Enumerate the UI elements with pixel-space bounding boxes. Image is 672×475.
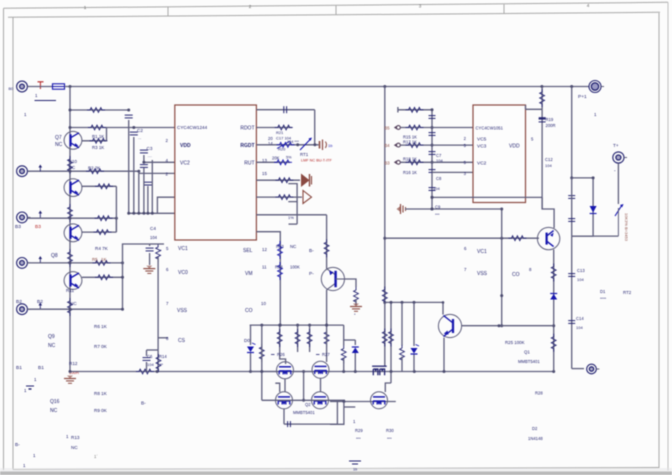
- label 1pct: [288, 215, 294, 220]
- svg-text:MMBT5401: MMBT5401: [518, 359, 540, 364]
- fuse F1: [53, 84, 65, 89]
- wire x501 under IC2: [500, 208, 503, 328]
- pin number 20 14: [268, 136, 273, 146]
- zener D0: [247, 325, 256, 371]
- wire under M5: [330, 402, 355, 425]
- wire row y180 + resistor to buzzer tri: [256, 178, 300, 183]
- label 1 bottomleft b: [24, 388, 27, 393]
- label D0: [244, 338, 250, 343]
- resistor R23: [278, 241, 283, 259]
- wire CS column: [158, 257, 168, 372]
- wire row y162 VC2: [142, 155, 174, 164]
- transistor Q PNP pass: [321, 267, 344, 290]
- wire long bottom y371.5: [69, 370, 556, 373]
- ic U2 CW1051 box: [473, 105, 526, 203]
- pin number 2b: [166, 172, 169, 177]
- wire SEL/VM column x280: [256, 232, 281, 327]
- resistor R1 row: [82, 128, 108, 144]
- svg-text:NC: NC: [71, 445, 78, 450]
- label C8 104: [433, 176, 442, 191]
- label D1: [600, 289, 607, 301]
- svg-text:C14: C14: [576, 316, 584, 321]
- svg-text:12: 12: [262, 247, 267, 252]
- resistor below Q1: [551, 264, 556, 282]
- resistor below Q1 b: [551, 334, 556, 352]
- svg-text:CO: CO: [245, 308, 253, 314]
- label B2 navy: [16, 299, 22, 305]
- svg-text:B3: B3: [15, 224, 21, 230]
- capacitor loop c1: [568, 178, 575, 236]
- svg-text:104: 104: [150, 235, 158, 240]
- wire RUT row + resistor 20K: [256, 160, 292, 165]
- capacitor bottom link: [284, 400, 337, 427]
- wire Q2 emitter: [443, 338, 446, 373]
- label 1 bottomleft a: [34, 377, 37, 382]
- connector T+: [613, 152, 627, 163]
- label R15 1K: [403, 135, 417, 140]
- svg-text:10: 10: [261, 301, 266, 306]
- junction dot mid: [442, 301, 445, 304]
- svg-text:C12: C12: [545, 157, 553, 162]
- svg-text:...: ...: [138, 135, 141, 140]
- svg-text:1´: 1´: [94, 454, 98, 459]
- wire T+ down: [617, 163, 619, 204]
- diode gate pair1: [352, 340, 359, 372]
- wire row y309: [28, 308, 125, 311]
- wire lower mosfet row: [260, 325, 345, 400]
- label B1 mid: [38, 365, 44, 371]
- connector P-1 bottom: [587, 364, 600, 374]
- svg-text:VSS: VSS: [477, 271, 488, 277]
- ground under C5: [143, 266, 155, 274]
- wire CO link row: [462, 324, 554, 327]
- wire between mosfet rows a: [284, 379, 286, 393]
- wire RDOT row + resistor: [256, 125, 292, 130]
- svg-text:**: **: [160, 362, 164, 367]
- pin SEL 12: [243, 247, 267, 254]
- arrow input row2: [39, 165, 43, 172]
- svg-text:4: 4: [587, 3, 590, 8]
- svg-text:D1: D1: [600, 289, 606, 294]
- capacitor bus c2: [429, 133, 436, 136]
- wire M3 gate stub: [275, 383, 279, 392]
- svg-text:C3: C3: [147, 146, 153, 151]
- wire Q2 collector: [442, 302, 444, 314]
- pin number 15: [262, 171, 267, 176]
- label VC1 float: [464, 246, 487, 255]
- resistor on PNP column: [324, 324, 329, 362]
- label B0: [9, 87, 14, 91]
- pin num U2 c: [464, 160, 467, 165]
- wire P+ drop x571.7: [570, 87, 573, 180]
- ic U2 bus cap column: [431, 108, 434, 210]
- svg-text:R13: R13: [71, 435, 80, 440]
- svg-text:NC: NC: [290, 244, 296, 249]
- label R24 100K: [275, 265, 300, 270]
- transistor Q8 stage2: [64, 224, 82, 242]
- wire mosfet M5 row: [330, 400, 396, 403]
- label R17 1K: [403, 140, 417, 145]
- svg-text:Q8: Q8: [51, 253, 58, 259]
- svg-text:SEL: SEL: [243, 248, 253, 254]
- svg-text:B1: B1: [38, 365, 44, 371]
- resistor R26 vert: [277, 329, 282, 347]
- label U2 VC2: [477, 161, 487, 167]
- wire sense vertical x384.8: [383, 87, 386, 305]
- input B5 row: [385, 125, 474, 130]
- resistor R20 variable: [277, 141, 295, 152]
- wire bus collector y213.3: [127, 212, 175, 215]
- svg-text:D2: D2: [532, 426, 538, 431]
- arrow input row5: [39, 303, 43, 310]
- transistor Q11: [64, 272, 82, 290]
- svg-text:1b: 1b: [353, 468, 357, 472]
- diode below Q1: [550, 294, 557, 300]
- label red note: [301, 159, 332, 163]
- wire gate v1: [278, 324, 285, 364]
- svg-text:B3: B3: [35, 224, 41, 230]
- label R25 100K: [505, 340, 525, 345]
- label B- net: [309, 248, 314, 254]
- label R13 NC: [71, 435, 80, 450]
- svg-text:R27: R27: [322, 352, 330, 357]
- wire row y173.4 pin: [139, 171, 175, 173]
- wire vdd bottom link: [431, 196, 555, 228]
- svg-text:200R: 200R: [546, 123, 556, 128]
- wire B0+ to fuse: [28, 86, 53, 88]
- svg-text:R23: R23: [276, 244, 284, 249]
- pin 7 VSS: [166, 301, 188, 314]
- label B- bottom mid: [141, 401, 146, 407]
- label U1 RUT: [244, 161, 254, 167]
- svg-text:NC: NC: [55, 142, 63, 148]
- pin num U2 a: [464, 136, 467, 141]
- label P+1: [578, 94, 587, 100]
- diode right loop: [590, 206, 597, 214]
- capacitor C3: [140, 146, 153, 158]
- wire stub x116 rows: [115, 186, 117, 232]
- svg-text:R9 0K: R9 0K: [94, 408, 108, 413]
- svg-text:R28: R28: [535, 391, 543, 396]
- connector B3: [17, 212, 31, 223]
- transistor Q1 drive: [537, 227, 559, 249]
- svg-text:R26: R26: [277, 352, 285, 357]
- mosfet M1: [277, 362, 294, 379]
- svg-text:R24: R24: [275, 265, 283, 270]
- svg-text:5%: 5%: [286, 156, 292, 160]
- resistor R19: [540, 89, 545, 107]
- svg-text:R14: R14: [159, 354, 167, 359]
- transistor Q drive2: [438, 314, 461, 337]
- wire R19 column: [541, 87, 543, 210]
- label U1 VDD: [180, 143, 191, 149]
- wire row y186 + resistor: [82, 184, 116, 189]
- label MMBT5401: [518, 359, 540, 364]
- wire right column down: [571, 236, 573, 369]
- svg-text:R8 1K: R8 1K: [94, 391, 108, 396]
- label 10K3pct rotated: [624, 213, 629, 242]
- label R8 1K: [94, 391, 108, 396]
- label 5 pin: [0, 0, 1, 1]
- resistor chain mid: [68, 204, 73, 222]
- svg-text:VDD: VDD: [509, 144, 520, 150]
- svg-text:104: 104: [147, 362, 154, 367]
- wire v402 down: [400, 302, 405, 371]
- svg-text:B-: B-: [15, 442, 20, 448]
- label C9: [435, 205, 441, 218]
- svg-text:D0: D0: [244, 338, 250, 343]
- svg-text:B4: B4: [385, 143, 391, 148]
- label 104 5pct: [287, 140, 299, 144]
- pin 5 VC1: [166, 246, 188, 252]
- wire right loop: [572, 176, 595, 236]
- label Q1: [524, 350, 530, 355]
- svg-text:VC2: VC2: [477, 161, 487, 167]
- pin VM 11: [245, 265, 267, 278]
- thermistor RT right: [615, 204, 624, 236]
- label U1 VC2: [180, 161, 190, 167]
- label U1 RGDT: [240, 143, 254, 149]
- connector B2row4: [17, 258, 31, 269]
- svg-text:***: ***: [356, 436, 361, 441]
- svg-text:Q9: Q9: [48, 334, 55, 340]
- wire row y232 + resistor: [82, 218, 116, 234]
- label C7 104: [436, 153, 443, 163]
- label R1 1K: [92, 134, 104, 139]
- resistor mid grounded: [344, 279, 358, 305]
- label small 5pct: [160, 248, 162, 253]
- wire Q1 emitter chain: [552, 250, 555, 372]
- label R16 1K: [403, 170, 417, 175]
- svg-text:11: 11: [262, 265, 267, 270]
- wire bus vertical x139: [138, 173, 140, 213]
- input B3 row: [385, 160, 474, 166]
- capacitor bus c1: [429, 116, 436, 119]
- svg-text:100K: 100K: [290, 265, 300, 270]
- svg-text:B0: B0: [9, 87, 14, 91]
- svg-text:RGDT: RGDT: [240, 143, 254, 149]
- page bottom edge shadow: [0, 468, 672, 475]
- connector P+1: [589, 81, 604, 93]
- label U2 VC5: [477, 137, 487, 143]
- label C14 104: [576, 316, 584, 330]
- label 1 right: [594, 112, 597, 117]
- pin num U2 vdd: [531, 137, 534, 142]
- label R2 2K: [88, 166, 100, 171]
- label mark bottom: [94, 454, 98, 459]
- svg-text:VM: VM: [245, 271, 253, 277]
- svg-text:2: 2: [249, 4, 252, 9]
- label Q9 NC: [48, 334, 56, 349]
- buzzer red symbol: [320, 140, 334, 151]
- label D2 1N4148: [528, 426, 543, 441]
- svg-text:VSS: VSS: [177, 308, 188, 314]
- wire B sense rows header: [398, 107, 432, 113]
- svg-text:R5: R5: [92, 257, 98, 262]
- capacitor bus c3: [429, 152, 436, 155]
- svg-text:R11: R11: [66, 288, 75, 293]
- transistor Q10: [64, 179, 82, 197]
- svg-text:R12: R12: [69, 361, 78, 366]
- capacitor bus c5: [429, 188, 436, 191]
- wire U2 vdd stub: [526, 105, 542, 109]
- label 1 under M5: [353, 419, 356, 424]
- label MMBT5401 lower: [293, 410, 315, 415]
- svg-text:104: 104: [576, 325, 583, 330]
- svg-text:B-: B-: [309, 248, 314, 254]
- svg-text:B2: B2: [16, 299, 22, 305]
- label minus: [614, 168, 616, 174]
- resistor R11 vertical: [68, 298, 73, 316]
- svg-text:R2 2K: R2 2K: [88, 166, 100, 171]
- label R11 NC: [66, 288, 77, 306]
- label C6 104: [147, 354, 154, 367]
- triangle indicator open: [303, 191, 312, 204]
- wire gate drive pair down: [382, 302, 393, 383]
- wire bus vertical x134: [133, 137, 135, 213]
- svg-text:NC: NC: [48, 343, 56, 349]
- svg-text:R21: R21: [276, 130, 284, 135]
- mosfet M3: [276, 392, 293, 409]
- svg-text:NC: NC: [50, 408, 58, 414]
- svg-text:VC3: VC3: [477, 144, 487, 150]
- ground left-pointing: [397, 204, 406, 214]
- svg-text:1b: 1b: [328, 143, 333, 148]
- capacitor C1: [125, 115, 133, 118]
- wire gate v3: [309, 325, 311, 352]
- capacitor bus c4: [429, 170, 436, 173]
- svg-text:B3: B3: [385, 161, 391, 166]
- svg-text:1%: 1%: [288, 215, 294, 220]
- label B1 navy: [16, 365, 22, 371]
- wire IC1 pin stub L-bend: [157, 197, 174, 213]
- wire M5 gate up: [385, 383, 391, 392]
- capacitor loop c2: [568, 219, 575, 222]
- label Q16 NC: [50, 399, 60, 414]
- ground bottom center: [349, 461, 361, 472]
- wire row y197 + resistor to triangle: [256, 195, 302, 200]
- svg-text:****: ****: [600, 296, 607, 301]
- connector B0+ (P+): [17, 81, 31, 92]
- pin num U2 d: [464, 171, 467, 176]
- triangle indicator filled: [301, 174, 312, 188]
- svg-text:***: ***: [435, 213, 440, 217]
- wire cap feedback row: [256, 106, 314, 145]
- svg-text:1K: 1K: [101, 257, 106, 262]
- svg-text:10K3% B=3453: 10K3% B=3453: [624, 213, 629, 242]
- resistor R vert under IC: [150, 244, 164, 262]
- label CO float: [512, 267, 532, 278]
- arrow input row3: [39, 211, 43, 218]
- label 20K 5pct: [272, 156, 292, 161]
- label R12 100R: [69, 361, 79, 375]
- capacitor C2: [130, 128, 144, 140]
- wire upper mosfet row: [251, 371, 331, 373]
- label U1 RDOT: [240, 126, 254, 132]
- wire transistor chain vertical: [69, 87, 71, 372]
- svg-text:R3 1K: R3 1K: [92, 145, 104, 150]
- svg-text:R7 0K: R7 0K: [94, 344, 108, 349]
- label 1 under switch: [35, 93, 57, 101]
- capacitor C6: [143, 350, 159, 372]
- label P- net: [309, 271, 314, 277]
- label U2 name: [476, 126, 504, 131]
- svg-text:R30: R30: [386, 428, 394, 433]
- wire row y171 R2: [28, 169, 141, 174]
- svg-text:R6 1K: R6 1K: [94, 324, 108, 329]
- svg-text:P+1: P+1: [578, 94, 587, 100]
- label U1 name: [177, 125, 208, 130]
- label 1 bottom d: [23, 463, 26, 468]
- label Q7 NC: [55, 135, 63, 148]
- capacitor under R19: [539, 118, 546, 122]
- label R18 1K: [403, 157, 417, 162]
- thermistor arrow RT1: [300, 138, 312, 151]
- wire PNP column: [325, 215, 328, 327]
- capacitor C bus3: [140, 165, 148, 168]
- resistor R10 vertical: [68, 156, 73, 174]
- svg-text:C8: C8: [436, 176, 442, 181]
- wire ground row y209: [405, 208, 502, 211]
- svg-text:C6: C6: [147, 354, 153, 359]
- svg-text:VDD: VDD: [180, 143, 191, 149]
- pin number 4 (VC2): [166, 158, 169, 163]
- label 1 bottom c: [33, 453, 36, 458]
- svg-text:....: ....: [148, 153, 152, 158]
- border frame header band: [8, 4, 660, 17]
- pin number 2 (VDD): [166, 138, 169, 143]
- svg-text:VC1: VC1: [178, 246, 188, 252]
- wire row y218 + resistor: [28, 216, 118, 221]
- ground main left: [64, 376, 76, 384]
- svg-text:RDOT: RDOT: [240, 126, 254, 132]
- border frame zone numbers: [84, 3, 590, 10]
- label R7 0K: [94, 344, 108, 349]
- label B2 mid: [37, 299, 43, 305]
- pin 6 VC0: [166, 267, 188, 276]
- wire Q1 base stub: [538, 237, 540, 239]
- label T+: [613, 143, 619, 149]
- resistor above PNP: [324, 239, 329, 257]
- svg-text:RT2: RT2: [623, 290, 632, 295]
- svg-text:C2: C2: [137, 128, 143, 133]
- resistor on sense vert: [382, 287, 387, 305]
- label C13 104: [577, 268, 585, 282]
- resistor R27b vert: [295, 329, 300, 347]
- label B3 navy: [15, 224, 21, 230]
- svg-text:R16 1K: R16 1K: [403, 170, 417, 175]
- input B4 row: [385, 143, 474, 148]
- svg-text:CYC4CW1051: CYC4CW1051: [476, 126, 504, 131]
- label R21 C17 104: [276, 130, 292, 141]
- mosfet M5: [371, 392, 388, 409]
- label I bottom: [66, 434, 69, 439]
- svg-text:VC1: VC1: [477, 249, 487, 255]
- svg-text:CYC4CW1244: CYC4CW1244: [177, 125, 208, 130]
- wire mid link mosfets: [302, 370, 305, 402]
- svg-text:***: ***: [387, 436, 392, 441]
- svg-text:R25 100K: R25 100K: [505, 340, 525, 345]
- label RT1: [300, 152, 309, 157]
- label R28: [535, 391, 543, 396]
- capacitor C5: [146, 244, 154, 265]
- svg-text:104: 104: [577, 277, 584, 282]
- flat mosfet symbol: [372, 366, 387, 375]
- connector B2: [17, 304, 31, 315]
- resistor R24: [278, 262, 283, 280]
- transistor Q7: [64, 131, 82, 149]
- wire row y127.5 + resistor R?: [69, 125, 175, 130]
